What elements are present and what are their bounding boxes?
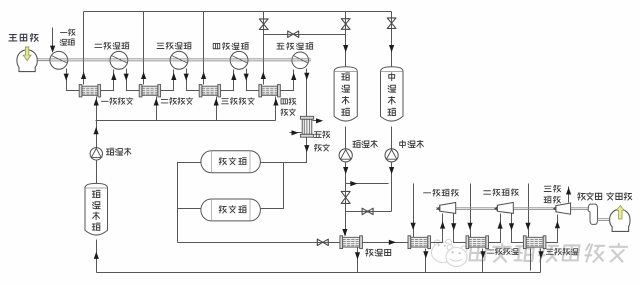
wire storage to preheater gas line — [178, 242, 340, 244]
valve below hot pump — [341, 191, 350, 203]
heat exchanger 三级冷却 — [199, 85, 220, 97]
wire heater3 to turbine3 — [546, 215, 558, 243]
heat exchanger 三级加热 — [523, 236, 546, 249]
compressor 3 circle — [170, 51, 188, 69]
compressor 2 circle — [110, 51, 128, 69]
wire cooler1 water supply drop — [96, 97, 98, 121]
arrow hot header right — [350, 181, 357, 186]
compressor 5 internal vanes — [293, 55, 308, 63]
generator 发电机 symbol — [610, 209, 630, 231]
heat exchanger 预热器 — [340, 236, 363, 249]
wire drop to heater1 top — [413, 184, 415, 238]
label 四级冷却 — [281, 98, 296, 105]
arrow cooler5 outlet down — [304, 145, 309, 152]
arrow riser into compressor2 — [111, 73, 116, 80]
motor internal arrow (yellow-green, down) — [23, 47, 31, 61]
label 五级冷却 line2 — [314, 144, 329, 151]
wire generator coupling shaft — [598, 219, 612, 221]
wire cooler1 to compressor2 riser — [101, 70, 114, 91]
arrow into mid tank — [389, 45, 394, 52]
wire bottom return header — [97, 272, 541, 274]
label 三级膨胀 — [544, 185, 560, 192]
arrow riser into compressor4 — [231, 73, 236, 80]
arrow heater2 water down — [480, 251, 485, 258]
wire compressor5 outlet — [306, 69, 308, 117]
wire compressor3 outlet to cooler3 — [187, 69, 200, 91]
tank text 高温水罐 — [342, 73, 350, 116]
valve on hot tank feed — [341, 19, 350, 30]
compressor 3 internal vanes — [171, 55, 187, 63]
wire pump to header — [96, 121, 98, 148]
tank 中温水罐 — [381, 67, 404, 121]
arrow water into cooler2 — [154, 98, 159, 105]
wire preheater water out — [357, 248, 359, 273]
wire compressor4 outlet to cooler4 — [247, 69, 259, 91]
label 高温泵 — [353, 140, 377, 147]
tank text 常温水罐 — [92, 190, 100, 230]
wire hot tank feed drop — [345, 12, 347, 67]
wire mid tank feed drop — [391, 12, 393, 67]
wire heater2 water out — [482, 249, 484, 273]
label 五级冷却 — [314, 131, 330, 138]
wire heater1 water out — [425, 249, 427, 273]
arrow water into cooler5 — [292, 130, 299, 135]
label 中温泵 — [400, 140, 424, 147]
arrow into hot tank — [343, 45, 348, 52]
compressor 2 internal vanes — [111, 55, 127, 63]
wire heater3 water out — [540, 249, 542, 273]
label 二级冷却 — [161, 98, 193, 105]
wire cooler4 water supply drop — [275, 97, 277, 121]
arrow up into turbine2 — [498, 221, 503, 228]
arrow heater3 water down — [538, 251, 543, 258]
arrow up into cold tank — [94, 252, 99, 259]
label 一级膨胀 — [424, 189, 459, 196]
label 一级冷却 — [101, 98, 133, 105]
label 一级加热 (under watermark) — [434, 248, 465, 255]
label 储气罐 upper — [219, 158, 246, 165]
heat exchanger 二级加热 — [466, 236, 489, 249]
wire cooler2 water supply drop — [156, 97, 158, 121]
arrow compressor3 outlet down — [184, 74, 189, 81]
wire top header — [84, 11, 392, 13]
arrow compressor4 outlet down — [244, 74, 249, 81]
label 储气罐 lower — [219, 206, 246, 213]
tank 高温水罐 — [334, 67, 357, 121]
storage tank 储气罐 upper — [201, 151, 261, 173]
watermark panda logo — [432, 239, 468, 266]
label 常温泵 — [106, 148, 130, 155]
wire turbine3 exhaust — [568, 187, 570, 203]
wire hot pump down to preheater — [345, 162, 347, 236]
arrow compressor1 outlet down — [64, 74, 69, 81]
label 四级冷却 line2 — [281, 109, 296, 116]
arrow water into cooler4 — [273, 98, 278, 105]
label 发电机 — [607, 193, 632, 200]
valve on bypass — [362, 208, 373, 214]
arrow into heater1 top — [411, 223, 416, 230]
heat exchanger 一级冷却 — [79, 85, 100, 97]
valve before preheater — [317, 239, 328, 245]
wire turbine2 outlet to heater3 — [512, 214, 524, 243]
wire cooler2 to compressor3 riser — [161, 70, 174, 91]
label 五级压缩 — [277, 43, 313, 50]
compressor 4 internal vanes — [231, 55, 247, 63]
label 减速器 — [578, 193, 602, 200]
label 二级膨胀 — [484, 189, 519, 196]
turbine 二级膨胀 — [497, 203, 513, 214]
wire cooler5 outlet to tanks — [261, 138, 307, 163]
wire heater1 to turbine1 — [431, 214, 443, 243]
arrow cooler3 water return up — [201, 72, 206, 79]
wire cooler5 water in stub — [290, 132, 302, 134]
wire compressor2 outlet to cooler2 — [127, 69, 140, 91]
wire mid tank outlet — [391, 127, 393, 149]
turbine shaft line — [436, 208, 589, 210]
arrow into compressor1 — [50, 46, 55, 53]
label 一级压缩 — [60, 29, 75, 35]
wire storage left header — [178, 163, 201, 243]
wire drop to heater3 top — [528, 184, 530, 238]
motor 主电机 symbol — [17, 50, 37, 72]
arrow riser into compressor3 — [171, 73, 176, 80]
wire compressor1 outlet to cooler1 — [67, 69, 80, 91]
arrow mid pump discharge — [389, 167, 394, 174]
wire cooler1 water return riser — [83, 12, 85, 85]
arrow cooler2 water return up — [141, 72, 146, 79]
arrow turbine2 outlet down — [509, 223, 514, 230]
wire mid pump drop — [391, 162, 393, 212]
wire return into cold tank — [96, 240, 98, 273]
wire storage right header — [261, 163, 284, 209]
label 二级加热 — [487, 248, 518, 255]
arrow heater1 water down — [423, 251, 428, 258]
arrow preheater water down — [355, 252, 360, 259]
arrow riser into compressor5 — [291, 73, 296, 80]
valve on mid tank feed — [387, 18, 396, 29]
tank 常温水罐 — [85, 183, 108, 235]
wire cooler3 water supply drop — [216, 97, 218, 121]
heat exchanger 四级冷却 — [259, 85, 280, 97]
arrow cooler1 water return up — [81, 72, 86, 79]
valve on cooler4 return line — [259, 19, 268, 30]
pump 中温泵 symbol — [385, 149, 398, 162]
heat exchanger 五级冷却 (vertical) — [300, 116, 313, 137]
arrow cooler4 water return up — [261, 72, 266, 79]
wire mid pump bypass to main — [346, 211, 392, 213]
arrow gas to heater1 — [389, 240, 396, 245]
wire cooler4 to compressor5 riser — [281, 70, 294, 91]
arrow into preheater shell — [342, 229, 347, 236]
pump 常温泵 symbol — [90, 148, 102, 160]
watermark text 电力系统自动化 — [469, 244, 627, 262]
wire heater2 to turbine2 — [489, 214, 501, 243]
arrow into heater3 top — [525, 223, 530, 230]
wire motor shaft coupling — [37, 59, 50, 61]
wire preheater to heater1 gas — [362, 242, 409, 244]
label 二级压缩 — [95, 42, 129, 49]
wire hot tank outlet — [345, 127, 347, 149]
storage tank 储气罐 lower — [201, 199, 261, 221]
wire crossover at y34 — [264, 34, 346, 36]
label 三级膨胀 line2 — [544, 196, 560, 203]
arrow hot pump discharge — [343, 167, 348, 174]
wire cooler4 water return riser — [263, 12, 265, 85]
heat exchanger 一级加热 — [408, 236, 431, 249]
compressor 5 circle — [292, 52, 309, 69]
wire compressor1 inlet — [52, 28, 54, 52]
arrow water up to header — [94, 127, 99, 134]
label 三级压缩 — [157, 42, 191, 49]
turbine 三级膨胀 — [556, 203, 571, 214]
valve on crossover — [288, 31, 299, 37]
arrow cooler5 water out — [316, 118, 323, 123]
label 四级压缩 — [213, 43, 248, 50]
arrow water into cooler1 — [94, 98, 99, 105]
wire cooler2 water return riser — [143, 12, 145, 85]
generator internal arrow (yellow, up) — [616, 206, 624, 219]
wire hot header with hop — [346, 183, 389, 185]
label 压缩 line2 — [60, 39, 74, 45]
wire heater3 water drop left — [530, 249, 532, 271]
turbine 一级膨胀 — [440, 203, 456, 214]
label 三级加热 — [546, 248, 578, 255]
wire cooler5 water out stub — [313, 120, 317, 122]
arrow compressor2 outlet down — [124, 74, 129, 81]
pump 高温泵 symbol — [339, 149, 352, 162]
main shaft line through compressors — [50, 59, 311, 61]
wire cooler3 water return riser — [203, 12, 205, 85]
wire pump suction from tank — [96, 161, 98, 184]
compressor 4 circle — [230, 51, 248, 69]
wire cooler3 to compressor4 riser — [221, 70, 234, 91]
arrow into heater2 top — [467, 223, 472, 230]
compressor 1 circle — [50, 51, 68, 69]
wire drop to heater2 top — [470, 184, 472, 238]
label 三级冷却 — [222, 98, 255, 105]
tank text 中温水罐 — [388, 73, 396, 116]
arrow compressor5 outlet down — [304, 73, 309, 80]
arrow up into turbine1 — [440, 221, 445, 228]
arrow turbine1 outlet down — [451, 223, 456, 230]
wire cooling water header — [96, 120, 276, 122]
arrow up into turbine3 — [555, 221, 560, 228]
label 预热器 — [366, 249, 391, 256]
wire turbine1 outlet to heater2 — [454, 214, 467, 243]
compressor 1 internal vanes — [51, 55, 67, 63]
label 主电机 — [9, 34, 38, 42]
gearbox 减速器 — [588, 204, 597, 224]
arrow turbine3 exhaust up — [566, 187, 571, 194]
heat exchanger 二级冷却 — [139, 85, 160, 97]
arrow water into cooler3 — [214, 98, 219, 105]
